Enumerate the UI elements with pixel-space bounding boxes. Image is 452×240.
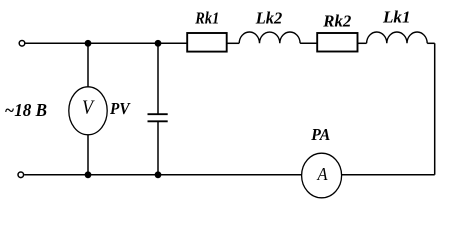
wire bottom right to ammeter (342, 174, 435, 176)
svg-text:Lk1: Lk1 (382, 8, 411, 27)
wire voltmeter branch upper (87, 43, 89, 87)
capacitor C1 bottom plate (148, 120, 168, 122)
svg-text:A: A (317, 164, 328, 184)
capacitor C1 top plate (148, 113, 168, 115)
wire Lk2 to Rk2 (300, 42, 317, 44)
svg-text:PV: PV (109, 99, 131, 118)
terminal top-left (19, 41, 25, 47)
wire Rk1 to Lk2 (227, 42, 240, 44)
wire right vertical (434, 43, 436, 175)
resistor Rk2 (317, 33, 357, 52)
wire Lk1 to right corner (427, 42, 435, 44)
svg-text:V: V (82, 98, 95, 119)
terminal bottom-left (18, 172, 24, 178)
svg-text:PA: PA (310, 125, 330, 144)
svg-text:Rk2: Rk2 (322, 12, 351, 31)
wire top horizontal (25, 42, 187, 44)
ammeter U PA (302, 153, 342, 198)
node junction top at capacitor branch (155, 40, 162, 47)
voltmeter U PV (69, 87, 107, 135)
node junction bottom at capacitor branch (155, 171, 162, 178)
node junction bottom at voltmeter branch (85, 171, 92, 178)
wire Rk2 to Lk1 (358, 42, 367, 44)
inductor Lk1 (367, 32, 428, 43)
node junction top at voltmeter branch (85, 40, 92, 47)
svg-text:~18 В: ~18 В (5, 100, 48, 120)
wire capacitor branch upper (157, 43, 159, 114)
inductor Lk2 (239, 32, 300, 43)
wire bottom from ammeter to terminal (24, 174, 301, 176)
resistor Rk1 (187, 33, 227, 52)
svg-text:Rk1: Rk1 (194, 9, 219, 28)
svg-text:Lk2: Lk2 (255, 9, 283, 28)
wire voltmeter branch lower (87, 135, 89, 175)
wire capacitor branch lower (157, 121, 159, 175)
